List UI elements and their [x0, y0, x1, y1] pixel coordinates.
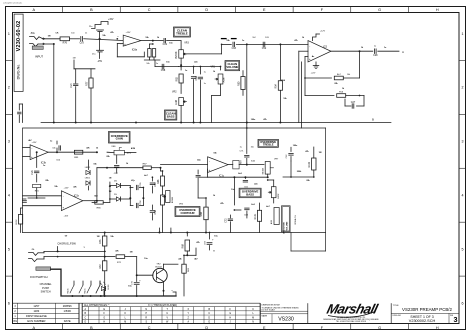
svg-text:R101: R101 — [254, 213, 257, 219]
svg-text:6: 6 — [8, 301, 10, 305]
svg-text:+15V: +15V — [32, 142, 38, 144]
svg-text:-15V: -15V — [97, 61, 102, 63]
svg-text:Cv3: Cv3 — [79, 41, 84, 44]
svg-text:TREBLE: TREBLE — [176, 31, 188, 35]
svg-text:+: + — [31, 155, 33, 159]
svg-text:V230-60-02: V230-60-02 — [16, 21, 22, 52]
svg-text:TREBLE: TREBLE — [263, 143, 274, 147]
svg-text:C53: C53 — [195, 75, 198, 80]
svg-text:C27: C27 — [351, 101, 356, 104]
svg-text:SWITCH: SWITCH — [41, 290, 51, 293]
svg-text:VS230R PREAMP PCB/2: VS230R PREAMP PCB/2 — [402, 307, 453, 312]
svg-text:-: - — [209, 159, 210, 163]
svg-text:V2300002.SCH: V2300002.SCH — [409, 319, 436, 323]
svg-text:D: D — [205, 8, 208, 12]
svg-text:Cv4: Cv4 — [70, 83, 73, 88]
svg-text:-: - — [31, 147, 32, 151]
svg-text:-15V: -15V — [64, 216, 69, 218]
svg-text:B: B — [90, 326, 93, 330]
svg-text:10k: 10k — [251, 147, 254, 149]
svg-text:+12V: +12V — [320, 31, 326, 33]
svg-text:R76: R76 — [63, 41, 68, 44]
svg-text:R54: R54 — [275, 83, 278, 88]
svg-text:-: - — [63, 194, 64, 198]
svg-text:C58: C58 — [154, 209, 157, 214]
svg-text:C72: C72 — [225, 218, 228, 223]
svg-text:H: H — [436, 326, 439, 330]
svg-text:M: M — [124, 322, 126, 324]
svg-text:1: 1 — [8, 32, 10, 36]
svg-text:FOOTSWITCH: FOOTSWITCH — [30, 275, 48, 279]
svg-text:G: G — [229, 313, 231, 315]
svg-text:LED1: LED1 — [85, 178, 91, 180]
svg-text:C: C — [148, 326, 151, 330]
svg-text:BC184: BC184 — [155, 266, 162, 268]
svg-text:D: D — [205, 326, 208, 330]
svg-text:C63: C63 — [232, 47, 237, 50]
svg-text:R102: R102 — [308, 161, 311, 167]
svg-text:ECN NUMBER: ECN NUMBER — [27, 319, 45, 323]
svg-text:1M: 1M — [73, 58, 76, 60]
svg-text:2: 2 — [8, 86, 10, 90]
svg-text:1183: 1183 — [34, 309, 40, 313]
svg-text:10k: 10k — [347, 74, 350, 76]
svg-text:PUSH: PUSH — [42, 287, 49, 290]
svg-text:C28: C28 — [373, 54, 378, 57]
svg-text:Marshall: Marshall — [325, 302, 380, 317]
svg-text:10V: 10V — [265, 37, 269, 39]
svg-text:4: 4 — [8, 194, 10, 198]
svg-text:100n: 100n — [293, 145, 298, 147]
svg-text:4: 4 — [462, 194, 464, 198]
svg-text:B200K: B200K — [176, 51, 178, 58]
svg-text:A: A — [33, 326, 36, 330]
svg-text:1M: 1M — [319, 152, 322, 154]
svg-text:1u: 1u — [204, 83, 206, 85]
svg-text:A1M: A1M — [270, 220, 273, 224]
svg-text:1257: 1257 — [33, 304, 39, 308]
svg-text:28/8/96: 28/8/96 — [63, 304, 72, 308]
svg-text:1/5/96: 1/5/96 — [63, 309, 71, 313]
svg-text:CHORUS_FSW: CHORUS_FSW — [57, 242, 76, 246]
svg-text:DWG.No.: DWG.No. — [17, 64, 21, 80]
svg-text:R98: R98 — [200, 211, 203, 216]
svg-text:INPUT: INPUT — [35, 55, 43, 59]
svg-text:LED2: LED2 — [85, 167, 91, 169]
svg-text:BASS: BASS — [246, 192, 254, 196]
svg-text:E: E — [263, 8, 266, 12]
svg-text:DO NOT SCALE: DO NOT SCALE — [262, 309, 276, 312]
svg-text:A1M: A1M — [175, 100, 178, 105]
svg-text:TEL: 01908 375411 FAX: 01908: TEL: 01908 375411 FAX: 01908 376118 — [336, 320, 366, 323]
svg-text:IC1b: IC1b — [74, 195, 80, 198]
svg-text:5: 5 — [8, 247, 10, 251]
svg-text:R88: R88 — [157, 179, 160, 184]
svg-text:NAME: NAME — [262, 314, 268, 317]
svg-text:100n: 100n — [251, 119, 256, 121]
svg-text:C52: C52 — [262, 47, 267, 50]
svg-text:BASS: BASS — [167, 114, 175, 118]
svg-text:M: M — [252, 317, 254, 319]
svg-text:sch4.p65 schematic: sch4.p65 schematic — [3, 2, 23, 5]
svg-text:1: 1 — [462, 32, 464, 36]
svg-text:G: G — [378, 8, 381, 12]
svg-text:CONTOUR: CONTOUR — [180, 211, 194, 215]
svg-text:R69: R69 — [181, 243, 184, 248]
svg-text:B: B — [372, 117, 374, 121]
svg-text:X = (THROUGH PLATED): X = (THROUGH PLATED) — [148, 304, 177, 307]
svg-text:+15V: +15V — [64, 188, 70, 190]
svg-text:-: - — [309, 44, 310, 48]
svg-text:G: G — [103, 317, 105, 319]
svg-text:-12V: -12V — [311, 73, 316, 75]
svg-text:3: 3 — [454, 315, 458, 324]
svg-text:GAIN: GAIN — [116, 137, 123, 141]
svg-text:A1M: A1M — [223, 78, 226, 83]
svg-text:1u: 1u — [240, 147, 242, 149]
svg-text:OVERDRIVE: OVERDRIVE — [284, 221, 286, 234]
svg-text:SW2b: SW2b — [68, 288, 70, 293]
svg-text:3: 3 — [8, 140, 10, 144]
svg-text:5: 5 — [462, 247, 464, 251]
svg-text:A: A — [33, 8, 36, 12]
svg-text:-: - — [125, 36, 126, 40]
svg-text:1u: 1u — [204, 71, 206, 73]
svg-text:TITLE: TITLE — [393, 305, 399, 307]
svg-text:IC8a: IC8a — [132, 49, 138, 52]
svg-text:R73: R73 — [99, 239, 102, 244]
svg-text:R82: R82 — [175, 76, 178, 81]
svg-text:SHEET 1 OF 3: SHEET 1 OF 3 — [410, 315, 433, 319]
svg-text:A1M: A1M — [127, 152, 132, 155]
svg-text:B: B — [90, 8, 93, 12]
svg-text:1M: 1M — [48, 36, 51, 38]
svg-text:C: C — [148, 8, 151, 12]
svg-text:VR2: VR2 — [172, 92, 177, 94]
svg-text:Cv8: Cv8 — [31, 170, 34, 175]
svg-text:VR9 ALOG: VR9 ALOG — [294, 215, 297, 225]
svg-text:N100K: N100K — [262, 167, 264, 174]
svg-text:FIRST RELEASE: FIRST RELEASE — [26, 314, 47, 318]
svg-text:E: E — [263, 326, 266, 330]
svg-text:H: H — [436, 8, 439, 12]
svg-text:IC5: IC5 — [323, 46, 328, 49]
svg-text:J: J — [230, 322, 231, 324]
svg-text:VOLUME: VOLUME — [226, 65, 238, 69]
svg-text:+: + — [124, 42, 126, 46]
svg-text:R77: R77 — [85, 81, 88, 86]
svg-text:DATE: DATE — [64, 319, 71, 323]
svg-text:J: J — [125, 309, 126, 311]
svg-text:G: G — [378, 326, 381, 330]
svg-text:1M: 1M — [130, 252, 133, 254]
svg-text:A: A — [402, 50, 404, 54]
svg-text:+15V: +15V — [108, 19, 114, 21]
svg-text:VS230: VS230 — [278, 316, 294, 322]
svg-text:ISS: ISS — [13, 320, 17, 323]
svg-text:VR3: VR3 — [184, 43, 189, 45]
svg-text:B200K: B200K — [172, 196, 174, 203]
svg-text:J5G: J5G — [30, 33, 34, 35]
svg-text:+: + — [62, 206, 64, 210]
svg-text:VR1: VR1 — [210, 67, 215, 69]
svg-text:1M: 1M — [97, 236, 100, 238]
svg-text:R50: R50 — [237, 81, 240, 86]
svg-text:ALL OTHER HOLES: *: ALL OTHER HOLES: * — [84, 304, 109, 307]
svg-text:DWG.NO: DWG.NO — [393, 315, 402, 317]
svg-text:A1M: A1M — [131, 147, 136, 150]
svg-text:DIMENSIONS IN MM: DIMENSIONS IN MM — [262, 305, 280, 307]
svg-text:10k: 10k — [52, 148, 55, 150]
svg-text:Cv9: Cv9 — [163, 43, 168, 46]
svg-text:+: + — [309, 57, 311, 61]
svg-text:VOLUME: VOLUME — [286, 221, 288, 230]
svg-text:CHANNEL: CHANNEL — [40, 283, 53, 286]
svg-text:B25K: B25K — [278, 193, 280, 199]
svg-text:+: + — [209, 168, 211, 172]
svg-text:+15V: +15V — [126, 32, 132, 34]
svg-text:R72: R72 — [99, 264, 102, 269]
svg-text:3: 3 — [462, 140, 464, 144]
svg-text:LED3: LED3 — [108, 285, 110, 290]
svg-text:C58: C58 — [161, 69, 166, 72]
svg-text:2: 2 — [462, 86, 464, 90]
svg-text:6: 6 — [462, 301, 464, 305]
